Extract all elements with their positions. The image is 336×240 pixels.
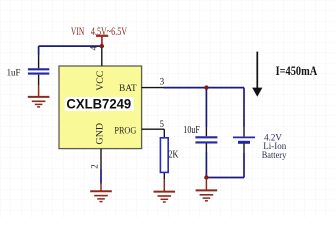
svg-text:2K: 2K: [168, 149, 179, 160]
svg-text:VCC: VCC: [96, 71, 106, 91]
svg-text:4: 4: [88, 45, 98, 50]
svg-text:4.5V~6.5V: 4.5V~6.5V: [91, 26, 128, 38]
svg-text:GND: GND: [96, 123, 106, 145]
svg-text:2: 2: [89, 164, 99, 169]
svg-text:VIN: VIN: [71, 26, 85, 38]
svg-text:1uF: 1uF: [7, 68, 21, 78]
svg-text:5: 5: [160, 119, 165, 129]
svg-text:BAT: BAT: [119, 83, 137, 93]
svg-text:CXLB7249: CXLB7249: [66, 97, 131, 113]
svg-text:I=450mA: I=450mA: [276, 64, 318, 78]
svg-text:PROG: PROG: [114, 126, 136, 136]
svg-text:3: 3: [160, 78, 165, 88]
svg-text:Battery: Battery: [262, 150, 287, 160]
svg-text:10uF: 10uF: [183, 125, 200, 136]
